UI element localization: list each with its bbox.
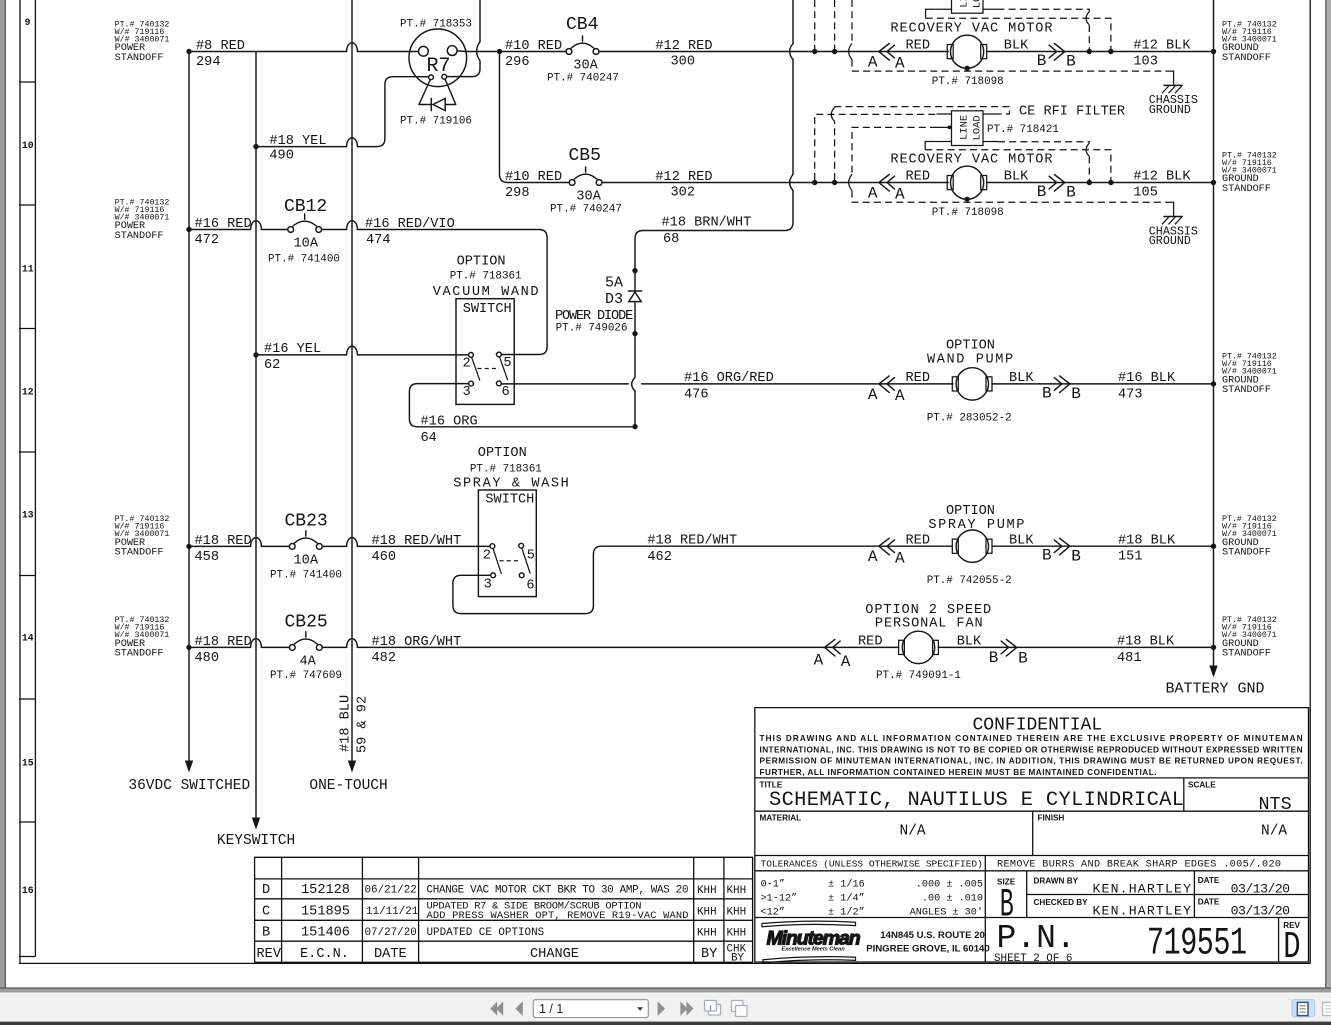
- arrow: one-touch: [348, 761, 356, 773]
- wire hop: diode leg over wand pump feed: [632, 377, 635, 391]
- svg-text:B: B: [1037, 52, 1047, 70]
- svg-text:A: A: [868, 185, 878, 203]
- svg-text:151895: 151895: [301, 904, 350, 919]
- svg-text:CB23: CB23: [285, 511, 328, 531]
- svg-text:CE RFI FILTER: CE RFI FILTER: [1019, 105, 1125, 120]
- svg-text:481: 481: [1117, 651, 1141, 666]
- wire: one-touch bus (vertical, x=352): [351, 0, 353, 763]
- svg-text:OPTION: OPTION: [457, 255, 506, 270]
- svg-text:62: 62: [264, 358, 280, 373]
- zone numbers: [22, 17, 34, 896]
- toolbar: page number combo box: [533, 1000, 648, 1018]
- svg-text:13: 13: [22, 510, 34, 521]
- svg-text:PT.# 749026: PT.# 749026: [556, 323, 628, 335]
- wire: keyswitch bus (vertical, x=256): [255, 52, 257, 821]
- svg-text:9: 9: [25, 17, 31, 28]
- switch S1 pin 2: [469, 353, 474, 358]
- toolbar: single page view button (active): [1292, 1000, 1315, 1017]
- svg-text:473: 473: [1118, 387, 1142, 402]
- svg-text:460: 460: [372, 550, 396, 565]
- svg-text:.00 ± .010: .00 ± .010: [922, 894, 983, 905]
- svg-text:#18 BLK: #18 BLK: [1118, 533, 1176, 548]
- svg-text:RED: RED: [906, 371, 930, 386]
- svg-text:STANDOFF: STANDOFF: [115, 548, 164, 559]
- svg-text:KEN.HARTLEY: KEN.HARTLEY: [1093, 903, 1192, 918]
- chassis ground (motor1): [1165, 71, 1173, 85]
- label block: power standoff (CB23 row): [115, 515, 170, 559]
- viewer chrome: left gray strip: [0, 0, 5, 992]
- wire: RED/VIO drop to switch pin 5: [501, 230, 547, 355]
- svg-text:36VDC SWITCHED: 36VDC SWITCHED: [128, 778, 250, 794]
- svg-text:RECOVERY VAC MOTOR: RECOVERY VAC MOTOR: [890, 21, 1053, 36]
- svg-text:B: B: [1071, 547, 1081, 565]
- svg-text:03/13/20: 03/13/20: [1231, 903, 1291, 918]
- svg-text:151: 151: [1118, 549, 1142, 564]
- svg-text:KEN.HARTLEY: KEN.HARTLEY: [1093, 882, 1192, 897]
- svg-text:719551: 719551: [1147, 921, 1247, 966]
- svg-text:SHEET 2 OF 6: SHEET 2 OF 6: [994, 953, 1072, 965]
- RFI filter 2 (CE RFI FILTER): [952, 111, 984, 146]
- viewer toolbar background: [0, 993, 1331, 1022]
- wire: #8 RED 294 (row A feed): [189, 51, 410, 53]
- svg-text:LINE: LINE: [959, 0, 971, 8]
- dashed wire: filter2 bottom-right pin to load tap1: [998, 142, 1089, 144]
- svg-text:BATTERY GND: BATTERY GND: [1166, 681, 1265, 698]
- connector B>>B (spray pump): [1054, 538, 1070, 555]
- svg-text:± 1/16: ± 1/16: [828, 878, 865, 890]
- svg-text:REMOVE BURRS AND BREAK SHARP E: REMOVE BURRS AND BREAK SHARP EDGES .005/…: [997, 858, 1281, 870]
- node: power standoff tap CB25 row: [186, 645, 191, 650]
- svg-text:10A: 10A: [294, 237, 319, 252]
- connector R7 small pin D: [442, 74, 447, 79]
- arrow: keyswitch: [252, 818, 260, 830]
- svg-text:CB25: CB25: [285, 612, 328, 632]
- wire: BRN/WHT drop (x=793) with hops over rows A and B: [792, 0, 794, 43]
- wire: drop from sheet top into row A: [479, 0, 481, 42]
- svg-text:STANDOFF: STANDOFF: [1222, 184, 1271, 195]
- svg-text:ANGLES ± 30': ANGLES ± 30': [910, 907, 983, 919]
- svg-text:KEYSWITCH: KEYSWITCH: [217, 833, 295, 849]
- svg-text:KHH: KHH: [727, 885, 747, 897]
- label block: ground standoff (spray pump row): [1222, 515, 1277, 559]
- switch S1 pin 3: [469, 381, 474, 386]
- svg-text:#18 RED: #18 RED: [195, 534, 252, 549]
- svg-text:D: D: [262, 883, 270, 898]
- wire: BRN/WHT corner down to power diode: [635, 231, 643, 292]
- svg-text:ONE-TOUCH: ONE-TOUCH: [309, 778, 387, 794]
- connector R7 pin A: [419, 46, 429, 56]
- diode D3 (power diode, cathode up): [628, 290, 641, 292]
- svg-text:6: 6: [526, 578, 534, 593]
- switch S2 pin 2: [490, 544, 495, 549]
- breaker CB5 arc: [574, 167, 596, 179]
- svg-text:OPTION: OPTION: [946, 339, 995, 354]
- dashed wire: filter1 line leads (from sheet top): [815, 0, 835, 49]
- svg-text:STANDOFF: STANDOFF: [115, 53, 164, 64]
- label block: power standoff (CB12 row): [115, 198, 170, 242]
- svg-text:11: 11: [22, 264, 34, 275]
- svg-text:BY: BY: [701, 947, 717, 962]
- svg-text:± 1/4”: ± 1/4”: [828, 893, 865, 905]
- connector R7 small pin C: [429, 75, 434, 80]
- svg-text:300: 300: [671, 55, 695, 70]
- svg-text:TOLERANCES (UNLESS OTHERWISE S: TOLERANCES (UNLESS OTHERWISE SPECIFIED): [761, 858, 983, 869]
- svg-text:RED: RED: [906, 39, 930, 54]
- wire: #18 RED 458 to CB23: [189, 545, 289, 547]
- node: filter2 load tap 1: [1087, 180, 1092, 185]
- svg-text:PT.# 719106: PT.# 719106: [400, 116, 472, 128]
- svg-text:BY: BY: [731, 953, 745, 965]
- svg-text:SPRAY & WASH: SPRAY & WASH: [453, 476, 570, 491]
- svg-text:10: 10: [22, 140, 34, 151]
- svg-text:PT.# 718361: PT.# 718361: [450, 271, 522, 283]
- svg-text:VACUUM WAND: VACUUM WAND: [433, 285, 540, 300]
- svg-text:STANDOFF: STANDOFF: [1222, 649, 1271, 660]
- wire: R7 output to CB4: [410, 50, 567, 53]
- svg-text:STANDOFF: STANDOFF: [115, 649, 164, 660]
- label block: ground standoff (row B): [1222, 151, 1277, 195]
- confidential paragraph: [760, 734, 1303, 777]
- svg-text:KHH: KHH: [697, 885, 717, 897]
- breaker CB25 terminals: [289, 645, 295, 651]
- wire: filter1 bottom-left pin dip: [926, 9, 936, 18]
- wire: motor1 to ground standoff: [987, 51, 1214, 53]
- wire: switch pin 3 to #16 ORG 64: [409, 384, 632, 427]
- svg-text:SWITCH: SWITCH: [485, 492, 534, 507]
- svg-text:STANDOFF: STANDOFF: [1222, 385, 1271, 396]
- svg-text:PERSONAL FAN: PERSONAL FAN: [875, 616, 984, 631]
- wire: fan to ground bus, #18 BLK 481: [938, 646, 1213, 648]
- svg-text:#18 ORG/WHT: #18 ORG/WHT: [372, 635, 462, 650]
- svg-text:12: 12: [22, 387, 34, 398]
- svg-text:E.C.N.: E.C.N.: [300, 947, 349, 962]
- dashed wire: line tap1 up to filter2 top-left pin: [815, 114, 937, 180]
- svg-text:PERMISSION OF MINUTEMAN INTERN: PERMISSION OF MINUTEMAN INTERNATIONAL, I…: [760, 757, 1303, 766]
- svg-text:B: B: [1018, 650, 1028, 668]
- viewer chrome: right gray strip: [1326, 0, 1331, 988]
- connector A<<A (motor2): [879, 175, 895, 192]
- svg-text:PT.# 749091-1: PT.# 749091-1: [876, 670, 961, 682]
- svg-text:<12”: <12”: [761, 907, 785, 919]
- svg-text:MATERIAL: MATERIAL: [760, 814, 802, 823]
- connector R7 pin B: [447, 46, 457, 56]
- viewer chrome: bottom page shadow band: [0, 988, 1331, 993]
- svg-text:3: 3: [484, 578, 492, 593]
- svg-text:A: A: [868, 386, 878, 404]
- svg-text:480: 480: [195, 651, 219, 666]
- svg-text:#18 RED/WHT: #18 RED/WHT: [647, 533, 737, 548]
- svg-text:FINISH: FINISH: [1038, 814, 1065, 823]
- svg-text:B: B: [1042, 384, 1052, 402]
- svg-text:B: B: [1066, 184, 1076, 202]
- svg-text:#8 RED: #8 RED: [196, 39, 245, 54]
- dashed wire: filter1 to load tap1: [997, 9, 1089, 11]
- svg-text:476: 476: [684, 388, 708, 403]
- wire: #18 YEL 490 from keyswitch bus to R7 small pin C: [256, 77, 429, 147]
- svg-text:462: 462: [647, 550, 671, 565]
- svg-text:11/11/21: 11/11/21: [366, 906, 419, 918]
- svg-text:302: 302: [671, 186, 695, 201]
- switch S2 mechanical link (dashed): [500, 560, 520, 562]
- svg-text:DATE: DATE: [374, 947, 407, 962]
- svg-text:STANDOFF: STANDOFF: [1222, 53, 1271, 64]
- switch S1 pin 6: [497, 381, 502, 386]
- svg-text:WAND PUMP: WAND PUMP: [927, 353, 1015, 368]
- dashed wire: motor1 shield left leg: [851, 0, 853, 43]
- svg-text:#16 RED/VIO: #16 RED/VIO: [365, 217, 455, 232]
- wire: #16 YEL 62 to switch pin 2: [256, 354, 469, 356]
- node: keyswitch bus tap for YEL: [253, 352, 258, 357]
- svg-text:CHANGE VAC MOTOR CKT BKR TO 30: CHANGE VAC MOTOR CKT BKR TO 30 AMP, WAS …: [427, 885, 689, 897]
- node: row B at ground bus: [1211, 180, 1216, 185]
- svg-text:296: 296: [505, 55, 529, 70]
- svg-text:N/A: N/A: [1261, 824, 1287, 840]
- svg-text:6: 6: [502, 385, 510, 400]
- svg-text:PINGREE GROVE, IL 60140: PINGREE GROVE, IL 60140: [866, 944, 990, 955]
- svg-text:151406: 151406: [301, 926, 350, 941]
- svg-text:B: B: [989, 649, 999, 667]
- svg-text:14: 14: [22, 633, 34, 644]
- connector B>>B (motor2): [1049, 175, 1065, 192]
- svg-text:B: B: [262, 926, 270, 941]
- dashed wire: motor2 shield (ground pin to chassis): [852, 127, 937, 174]
- switch S2 pin 3: [491, 573, 496, 578]
- switch S2 spray &amp; wash switch box: [478, 490, 536, 597]
- svg-text:SWITCH: SWITCH: [463, 302, 512, 317]
- svg-text:OPTION: OPTION: [946, 504, 995, 519]
- svg-text:DRAWN BY: DRAWN BY: [1034, 877, 1079, 886]
- svg-text:59 & 92: 59 & 92: [356, 696, 371, 753]
- svg-text:PT.# 718421: PT.# 718421: [987, 124, 1059, 136]
- sheet border: left row-number strip: [19, 0, 21, 963]
- node: filter2 load tap 2: [1108, 180, 1113, 185]
- dashed wire: motor1 shield bottom to chassis: [852, 70, 1165, 72]
- Minuteman logo swoosh top: [762, 921, 856, 927]
- svg-text:5A: 5A: [605, 275, 623, 292]
- svg-text:INTERNATIONAL, INC. THIS DRAWI: INTERNATIONAL, INC. THIS DRAWING IS NOT …: [760, 745, 1303, 754]
- svg-text:3: 3: [463, 385, 471, 400]
- toolbar: next-page button: [658, 1001, 666, 1016]
- svg-text:482: 482: [372, 651, 396, 666]
- svg-text:LOAD: LOAD: [972, 115, 984, 140]
- breaker CB12 terminals: [288, 227, 294, 233]
- svg-text:472: 472: [195, 233, 219, 248]
- svg-text:DATE: DATE: [1198, 898, 1220, 907]
- toolbar: last-page button (double right arrow): [680, 1002, 693, 1016]
- wire: filter2 bottom-left pin dip: [925, 142, 936, 150]
- motor M1 recovery vac motor: [947, 45, 953, 59]
- switch S1 vacuum wand switch box: [456, 299, 514, 405]
- svg-text:PT.# 718361: PT.# 718361: [470, 464, 542, 476]
- svg-text:14N845 U.S. ROUTE 20: 14N845 U.S. ROUTE 20: [880, 930, 985, 941]
- node: power standoff tap row A: [186, 49, 191, 54]
- svg-text:A: A: [814, 652, 824, 670]
- svg-text:#16 RED: #16 RED: [195, 217, 252, 232]
- dashed wire: filter1 to load tap2: [926, 18, 1111, 49]
- svg-text:458: 458: [195, 550, 219, 565]
- svg-text:30A: 30A: [576, 190, 601, 205]
- svg-text:298: 298: [505, 186, 529, 201]
- svg-text:103: 103: [1133, 54, 1157, 69]
- svg-text:#10 RED: #10 RED: [505, 170, 562, 185]
- node: row A / CB5 branch junction: [497, 49, 502, 54]
- wire: #18 RED 480 to CB25: [189, 646, 289, 648]
- switch S2 pin 5: [519, 543, 524, 548]
- wire: spray pump to ground bus, #18 BLK 151: [992, 545, 1214, 547]
- pump P1 wand pump: [952, 377, 958, 391]
- svg-text:B: B: [1037, 183, 1047, 201]
- svg-text:PT.# 747609: PT.# 747609: [270, 670, 342, 682]
- svg-text:CB5: CB5: [569, 146, 601, 166]
- node: row A at ground bus: [1211, 49, 1216, 54]
- svg-text:PT.# 283052-2: PT.# 283052-2: [927, 412, 1012, 424]
- node: filter1 line tap 2: [832, 49, 837, 54]
- node: power standoff tap CB12 row: [186, 227, 191, 232]
- sheet border: bottom edge: [19, 962, 1311, 964]
- wire: YEL segment inside R7 body: [416, 76, 429, 78]
- svg-text:#18 BLK: #18 BLK: [1117, 635, 1175, 650]
- Minuteman logo swoosh bottom: [763, 957, 856, 963]
- svg-text:CHANGE: CHANGE: [530, 947, 579, 962]
- svg-text:07/27/20: 07/27/20: [365, 927, 417, 939]
- node: diode to #16 ORG tie: [632, 424, 637, 429]
- wire: drop continues to R7 small pin D: [447, 61, 480, 77]
- svg-text:A: A: [895, 186, 905, 204]
- wire: CB4 to recovery vac motor 1: [599, 51, 948, 53]
- svg-text:A: A: [895, 55, 905, 73]
- wire: wand pump to ground bus, #16 BLK 473: [992, 383, 1214, 385]
- svg-text:PT.# 718098: PT.# 718098: [932, 207, 1004, 219]
- svg-text:0-1”: 0-1”: [761, 878, 785, 890]
- wire: 36VDC switched bus (vertical, x=189): [188, 52, 190, 764]
- node: filter1 load tap 2: [1108, 49, 1113, 54]
- node: filter2 line tap 1: [812, 180, 817, 185]
- connector A<<A (motor1): [879, 44, 895, 61]
- svg-text:A: A: [895, 387, 905, 405]
- svg-text:KHH: KHH: [727, 906, 747, 918]
- connector R7 body: [409, 29, 467, 87]
- svg-text:CONFIDENTIAL: CONFIDENTIAL: [973, 716, 1103, 736]
- breaker CB12 arc: [293, 214, 316, 226]
- svg-text:#18 YEL: #18 YEL: [269, 134, 326, 149]
- node: diode bottom junction: [632, 331, 637, 336]
- wire hop: over one-touch bus: [347, 221, 358, 230]
- svg-text:FURTHER, ALL INFORMATION CONTA: FURTHER, ALL INFORMATION CONTAINED HEREI…: [760, 768, 1157, 777]
- breaker CB4 terminals: [566, 49, 572, 55]
- label block: power standoff (row A): [115, 20, 170, 64]
- node: filter1 load tap 1: [1087, 49, 1092, 54]
- dashed wire: line tap2 up over to filter2 top-right pin: [834, 121, 836, 180]
- node: diode top junction: [632, 268, 637, 273]
- svg-text:1 / 1: 1 / 1: [539, 1002, 563, 1016]
- breaker CB5 terminals: [569, 180, 575, 186]
- svg-text:P.N.: P.N.: [997, 920, 1076, 957]
- svg-text:474: 474: [366, 233, 390, 248]
- switch S1 pin 5: [497, 352, 502, 357]
- svg-text:NTS: NTS: [1259, 794, 1292, 815]
- svg-text:PT.# 740247: PT.# 740247: [550, 204, 622, 216]
- connector B>>B (fan): [1001, 639, 1017, 656]
- switch S1 levers: [472, 357, 508, 381]
- node: power standoff tap CB23 row: [186, 544, 191, 549]
- wire: spray switch pin 3 loop to #18 RED/WHT 462: [453, 546, 953, 613]
- wire: battery ground bus (vertical, x=1213.5): [1213, 0, 1215, 668]
- connector A<<A (spray pump): [879, 538, 895, 555]
- switch S2 pin 6: [519, 573, 524, 578]
- wire: CB5 to recovery vac motor 2: [602, 182, 948, 184]
- svg-text:16: 16: [22, 885, 34, 896]
- svg-text:5: 5: [527, 548, 535, 563]
- svg-text:OPTION: OPTION: [478, 446, 527, 461]
- svg-text:LOAD: LOAD: [972, 0, 984, 8]
- svg-text:PT.# 742055-2: PT.# 742055-2: [927, 575, 1012, 587]
- wire: diode to #16 ORG junction: [634, 302, 636, 378]
- svg-text:LINE: LINE: [959, 115, 971, 140]
- label block: ground standoff (wand pump row): [1222, 353, 1277, 397]
- svg-text:490: 490: [269, 149, 293, 164]
- svg-text:PT.# 718098: PT.# 718098: [932, 76, 1004, 88]
- sheet border: right edge: [1309, 0, 1311, 963]
- svg-text:THIS DRAWING AND ALL INFORMATI: THIS DRAWING AND ALL INFORMATION CONTAIN…: [760, 734, 1303, 743]
- connector B>>B (motor1): [1049, 44, 1065, 61]
- node: filter2 line tap 2: [832, 180, 837, 185]
- connector A<<A (fan): [825, 639, 841, 656]
- svg-text:#16 ORG: #16 ORG: [421, 415, 478, 430]
- wire hop: over keyswitch bus: [251, 221, 262, 230]
- svg-text:#18 RED: #18 RED: [195, 635, 252, 650]
- svg-text:PT.# 741400: PT.# 741400: [268, 254, 340, 266]
- svg-text:#18 BLU: #18 BLU: [339, 695, 354, 752]
- svg-text:REV: REV: [257, 947, 282, 962]
- svg-text:D: D: [1283, 927, 1300, 970]
- svg-text:CHECKED BY: CHECKED BY: [1034, 898, 1089, 907]
- arrow: 36VDC switched: [185, 761, 193, 773]
- ECN revision table frame: [255, 857, 753, 963]
- toolbar: first-page button (double left arrow): [490, 1002, 503, 1016]
- breaker CB23 arc: [295, 531, 317, 543]
- svg-text:R7: R7: [427, 55, 451, 78]
- svg-text:#12 BLK: #12 BLK: [1133, 170, 1191, 185]
- svg-text:#16 ORG/RED: #16 ORG/RED: [684, 371, 774, 386]
- wire: branch down to CB5 row: [500, 52, 570, 183]
- svg-text:N/A: N/A: [900, 824, 926, 840]
- svg-text:A: A: [895, 549, 905, 567]
- breaker CB4 arc: [571, 36, 593, 48]
- node: YEL tap on keyswitch bus: [253, 144, 258, 149]
- svg-text:#18 BRN/WHT: #18 BRN/WHT: [662, 216, 752, 231]
- svg-text:.000 ± .005: .000 ± .005: [916, 879, 983, 890]
- svg-text:D3: D3: [605, 291, 623, 308]
- label block: power standoff (CB25 row): [115, 616, 170, 660]
- svg-text:68: 68: [663, 232, 679, 247]
- svg-text:#18 RED/WHT: #18 RED/WHT: [372, 534, 462, 549]
- motor M3 personal fan: [899, 640, 905, 654]
- svg-text:A: A: [868, 54, 878, 72]
- svg-text:RED: RED: [906, 533, 930, 548]
- svg-text:152128: 152128: [301, 883, 350, 898]
- svg-text:PT.# 741400: PT.# 741400: [270, 570, 342, 582]
- svg-text:SCHEMATIC, NAUTILUS E CYLINDRI: SCHEMATIC, NAUTILUS E CYLINDRICAL: [769, 789, 1184, 812]
- svg-text:105: 105: [1133, 185, 1157, 200]
- svg-text:CB4: CB4: [566, 15, 598, 35]
- svg-text:± 1/2”: ± 1/2”: [828, 907, 865, 919]
- node: filter1 line tap 1: [812, 49, 817, 54]
- wire: switch pin 6 to wand pump feed: [501, 383, 953, 385]
- svg-text:RECOVERY VAC MOTOR: RECOVERY VAC MOTOR: [890, 152, 1053, 167]
- svg-text:294: 294: [196, 55, 220, 70]
- wire hop: row A over one-touch bus: [347, 43, 358, 52]
- svg-text:B: B: [1071, 385, 1081, 403]
